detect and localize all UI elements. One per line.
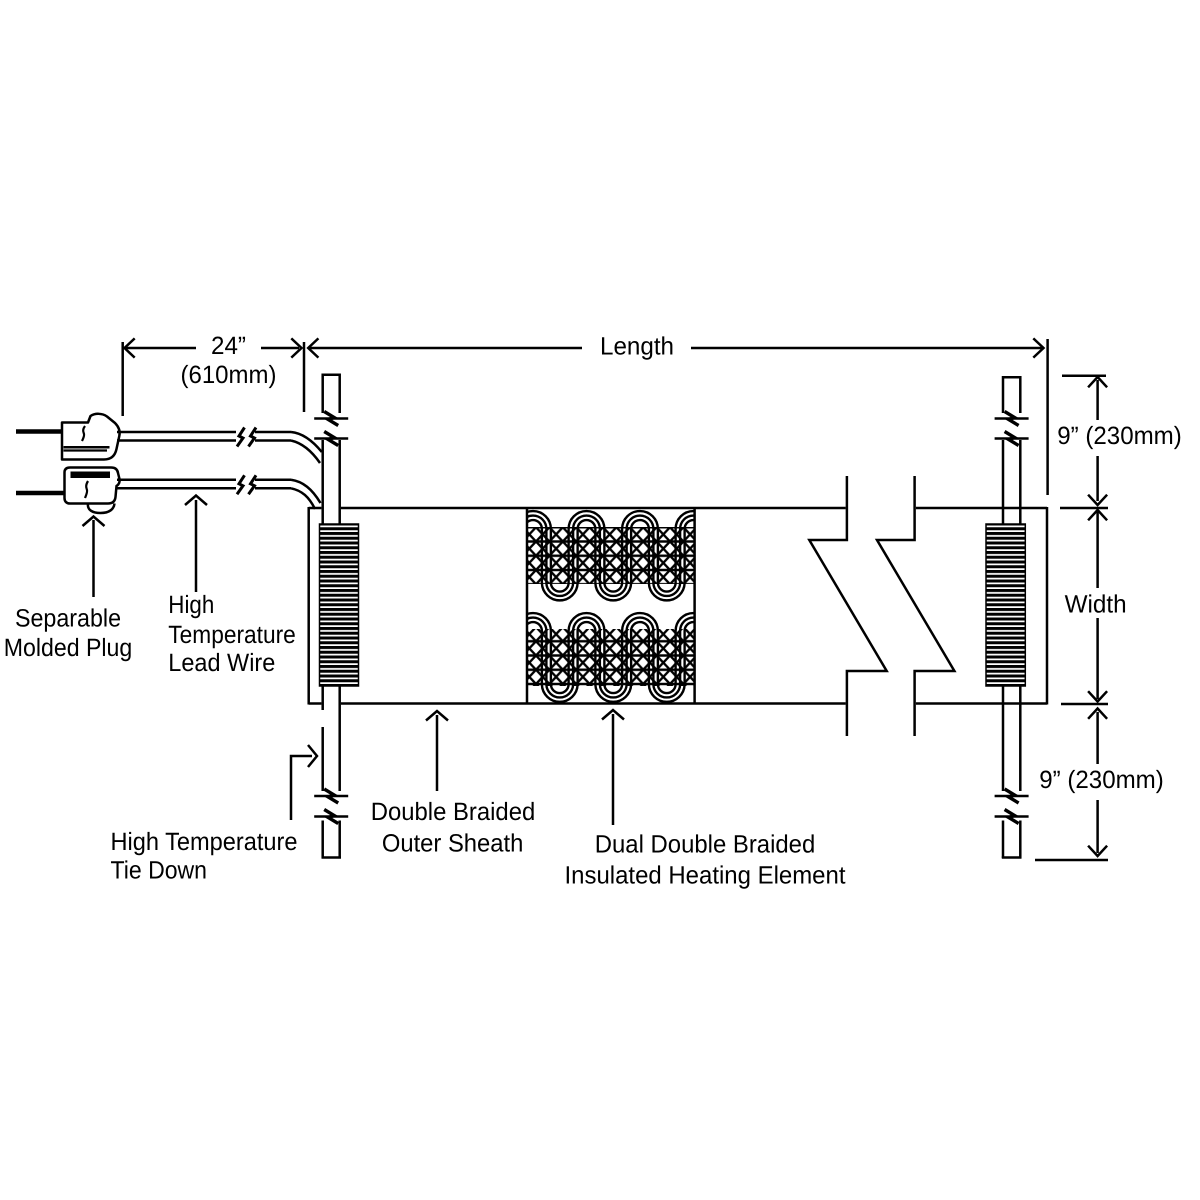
- svg-text:9” (230mm): 9” (230mm): [1039, 766, 1164, 794]
- svg-text:Separable: Separable: [15, 605, 121, 633]
- svg-text:24”: 24”: [211, 332, 246, 360]
- svg-text:High: High: [168, 591, 214, 619]
- svg-text:Width: Width: [1065, 591, 1127, 619]
- svg-text:Insulated Heating Element: Insulated Heating Element: [565, 861, 846, 889]
- svg-text:Dual Double Braided: Dual Double Braided: [595, 831, 816, 859]
- svg-text:(610mm): (610mm): [181, 361, 277, 389]
- svg-text:Temperature: Temperature: [168, 621, 295, 649]
- svg-text:Outer Sheath: Outer Sheath: [382, 829, 524, 857]
- svg-text:Double Braided: Double Braided: [371, 798, 536, 826]
- svg-text:9” (230mm): 9” (230mm): [1057, 422, 1182, 450]
- svg-text:Tie Down: Tie Down: [111, 856, 208, 884]
- svg-text:Lead Wire: Lead Wire: [168, 649, 275, 677]
- svg-text:Length: Length: [600, 332, 674, 360]
- svg-text:Molded Plug: Molded Plug: [4, 634, 133, 662]
- svg-text:High Temperature: High Temperature: [111, 828, 298, 856]
